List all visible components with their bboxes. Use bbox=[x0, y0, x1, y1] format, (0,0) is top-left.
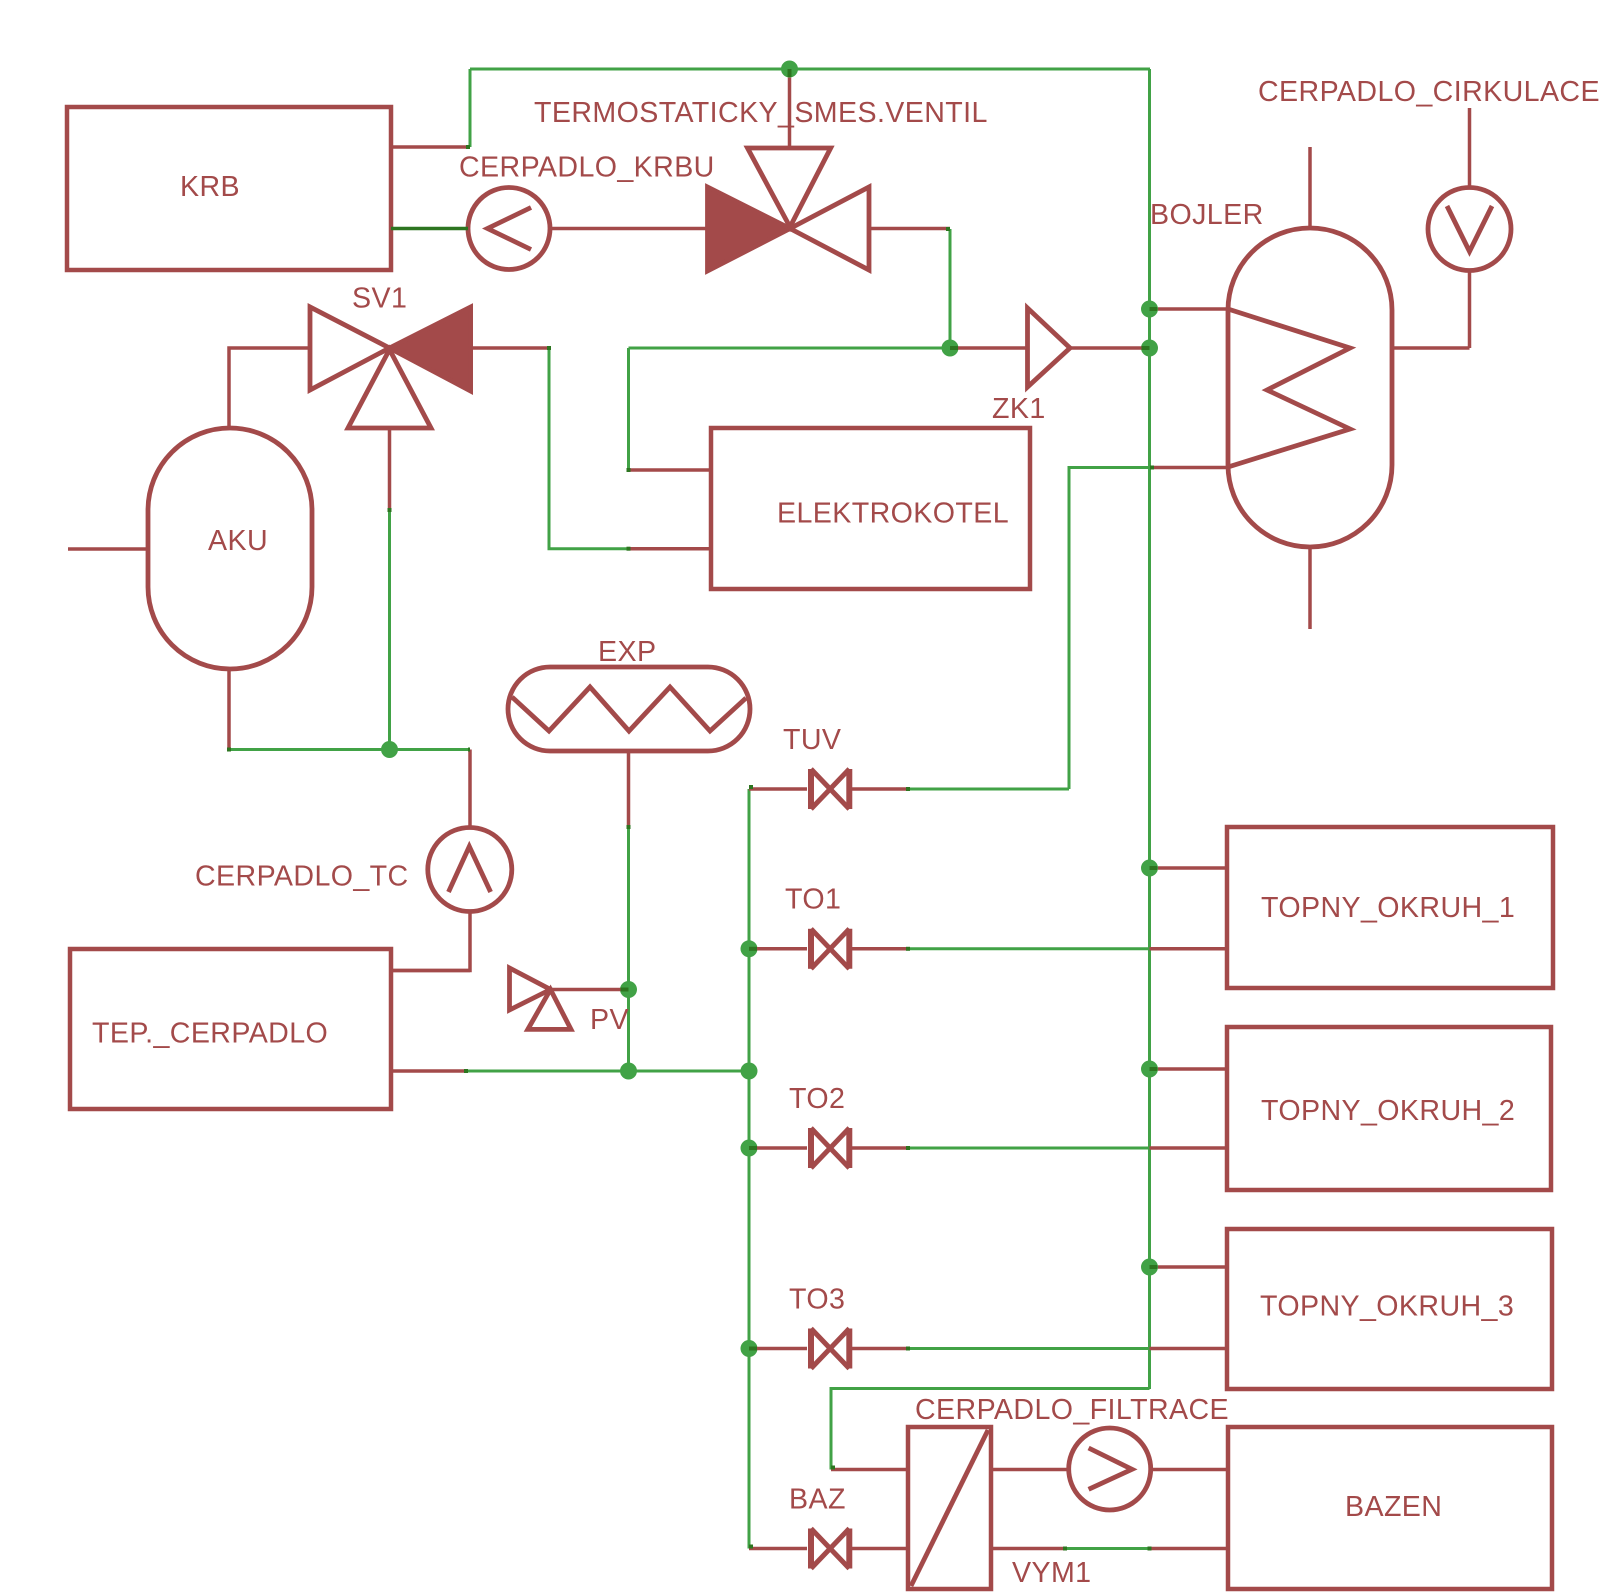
tank AKU left pin bbox=[68, 547, 150, 551]
node bar TOPNY3 feed bbox=[1150, 1265, 1158, 1269]
wire TO2 to box bbox=[908, 1147, 1150, 1150]
node junction on top bus bbox=[781, 61, 798, 78]
heat-exchanger VYM1 box bbox=[908, 1427, 991, 1589]
boiler KRB top pin bbox=[391, 145, 470, 149]
wire-joint nub bojler lower-left bbox=[1150, 466, 1154, 470]
svg-text:TO3: TO3 bbox=[789, 1284, 845, 1316]
valve TERMOSTATICKY top pin bbox=[788, 78, 792, 149]
valve SV1 left triangle bbox=[310, 307, 390, 390]
wire bojler lower-left bbox=[1069, 468, 1152, 790]
pool BAZEN box bbox=[1228, 1427, 1552, 1589]
node TO2 rail junction bbox=[741, 1140, 758, 1157]
valve BAZ bowtie bbox=[811, 1529, 849, 1569]
svg-text:EXP: EXP bbox=[598, 636, 656, 668]
wire-joint nub TC top bbox=[468, 748, 470, 752]
pump CERPADLO_KRBU circle bbox=[468, 188, 550, 270]
valve SV1 left pin bbox=[229, 348, 310, 428]
pump CERPADLO_FILTRACE chevron bbox=[1089, 1448, 1132, 1489]
circuit TOPNY_OKRUH_3 box bbox=[1227, 1229, 1552, 1389]
node PV junction bbox=[620, 981, 637, 998]
wire SV1 bottom down bbox=[388, 510, 391, 750]
wire-joint nub SV1 right bbox=[547, 346, 551, 350]
node bar top bus bbox=[788, 69, 792, 77]
tank BOJLER bottom pin bbox=[1308, 547, 1312, 629]
tank BOJLER top pin bbox=[1308, 147, 1312, 228]
tank BOJLER upper-left pin bbox=[1158, 307, 1228, 311]
circuit TOPNY3 lower pin bbox=[1150, 1347, 1228, 1351]
wire-joint nub VYM1 lower right bbox=[1063, 1547, 1067, 1551]
valve TUV bowtie bbox=[811, 769, 849, 809]
heat-pump TEP lower pin bbox=[391, 1069, 466, 1073]
wire left rail vertical bbox=[748, 789, 751, 1549]
svg-text:TEP._CERPADLO: TEP._CERPADLO bbox=[92, 1018, 328, 1050]
wire rail to VYM1 bbox=[831, 1389, 1150, 1470]
wire-joint nub SMES right bbox=[946, 227, 950, 231]
node TO1 rail junction bbox=[741, 940, 758, 957]
node bar TO2 rail bbox=[749, 1146, 757, 1150]
pump CERPADLO_CIRKULACE bottom pin bbox=[1468, 271, 1472, 349]
wire-joint nub EXP bottom bbox=[627, 825, 631, 829]
svg-text:TO1: TO1 bbox=[785, 884, 841, 916]
pump CERPADLO_CIRKULACE circle bbox=[1428, 188, 1511, 271]
svg-text:TERMOSTATICKY_SMES.VENTIL: TERMOSTATICKY_SMES.VENTIL bbox=[534, 97, 988, 129]
svg-text:CERPADLO_CIRKULACE: CERPADLO_CIRKULACE bbox=[1258, 76, 1600, 108]
check-valve ZK1 left pin bbox=[958, 346, 1028, 350]
wire TUV right bbox=[908, 788, 1069, 791]
svg-text:AKU: AKU bbox=[208, 525, 268, 557]
relief-valve PV bottom triangle bbox=[528, 990, 571, 1030]
wire TO1 to box bbox=[908, 947, 1150, 950]
relief-valve PV right triangle bbox=[510, 968, 551, 1010]
pump CERPADLO_KRBU chevron bbox=[488, 208, 532, 250]
valve SV1 right triangle filled bbox=[390, 307, 471, 391]
wire SMES out down bbox=[949, 229, 952, 348]
svg-text:TOPNY_OKRUH_3: TOPNY_OKRUH_3 bbox=[1260, 1291, 1514, 1323]
tank BOJLER right pin bbox=[1392, 346, 1470, 350]
wire-joint nub VYM1 left bbox=[831, 1466, 835, 1470]
pump CERPADLO_CIRKULACE top pin bbox=[1468, 108, 1472, 188]
svg-text:ZK1: ZK1 bbox=[992, 393, 1046, 425]
node AKU-SV1 junction bbox=[381, 741, 398, 758]
svg-text:TOPNY_OKRUH_1: TOPNY_OKRUH_1 bbox=[1261, 892, 1515, 924]
wire-joint nub BAZ left bbox=[749, 1545, 753, 1549]
valve TO1 bowtie bbox=[811, 929, 849, 969]
wire-joint nub TUV left bbox=[749, 785, 753, 789]
node bar TOPNY1 feed bbox=[1150, 866, 1158, 870]
valve TERMOSTATICKY right triangle bbox=[790, 187, 869, 270]
pump CERPADLO_FILTRACE right pin bbox=[1151, 1468, 1228, 1472]
pump CERPADLO_FILTRACE left pin bbox=[991, 1468, 1069, 1472]
heat-pump TEP._CERPADLO box bbox=[70, 949, 391, 1109]
svg-text:TOPNY_OKRUH_2: TOPNY_OKRUH_2 bbox=[1261, 1095, 1515, 1127]
node bar SMES-ZK1 bbox=[950, 346, 958, 350]
tank BOJLER capsule bbox=[1228, 228, 1392, 547]
tank AKU bottom pin bbox=[227, 669, 231, 750]
wire KRB bottom pin overlap bbox=[391, 227, 468, 231]
valve TO3 bowtie bbox=[811, 1329, 849, 1369]
svg-text:BAZ: BAZ bbox=[789, 1484, 846, 1516]
valve TUV pins bbox=[749, 787, 908, 791]
node bar TO3 rail bbox=[749, 1347, 757, 1351]
wire elektrokotel top to ZK1 bbox=[629, 347, 951, 350]
node TOPNY2 feed junction bbox=[1141, 1061, 1158, 1078]
pump CERPADLO_TC top pin bbox=[468, 750, 472, 828]
wire-joint nub TEP lower bbox=[464, 1069, 468, 1073]
wire VYM1 to bazen lower bbox=[1065, 1547, 1150, 1550]
wire elektrokotel top vertical bbox=[627, 348, 630, 470]
wire TEP lower to rail bbox=[466, 1070, 749, 1073]
node bar TOPNY2 feed bbox=[1150, 1067, 1158, 1071]
valve TERMOSTATICKY right pin bbox=[869, 227, 950, 231]
boiler ELEKTROKOTEL upper pin bbox=[629, 468, 712, 472]
svg-text:ELEKTROKOTEL: ELEKTROKOTEL bbox=[777, 498, 1009, 530]
wire right rail vertical bbox=[1148, 69, 1151, 1389]
node TEP-rail junction bbox=[741, 1063, 758, 1080]
node bar bojler upper bbox=[1150, 307, 1158, 311]
wire-joint nub TUV right bbox=[906, 787, 910, 791]
wire-joint nub SV1 bottom bbox=[388, 508, 392, 512]
heat-pump TEP upper pin bbox=[391, 969, 470, 973]
wire SV1 right down bbox=[549, 348, 629, 549]
node bar TO1 rail bbox=[749, 947, 757, 951]
pump CERPADLO_TC circle bbox=[428, 828, 512, 912]
vessel EXP capsule bbox=[508, 667, 750, 751]
svg-text:SV1: SV1 bbox=[352, 283, 407, 315]
valve SV1 bottom triangle bbox=[348, 350, 431, 429]
circuit TOPNY2 lower pin bbox=[1150, 1146, 1228, 1150]
circuit TOPNY1 upper pin bbox=[1158, 866, 1227, 870]
check-valve ZK1 triangle bbox=[1028, 308, 1071, 387]
pool BAZEN lower pin bbox=[1150, 1547, 1229, 1551]
wire-joint nub TO3 right bbox=[906, 1347, 910, 1351]
boiler ELEKTROKOTEL lower pin bbox=[629, 547, 712, 551]
vessel EXP zigzag bbox=[512, 687, 746, 731]
wire-joint nub bazen lower bbox=[1148, 1547, 1152, 1551]
wire-joint nub elektrokotel lower bbox=[627, 547, 631, 551]
svg-text:CERPADLO_FILTRACE: CERPADLO_FILTRACE bbox=[915, 1394, 1229, 1426]
wire-joint nub KRB top bbox=[466, 145, 470, 149]
pump CERPADLO_KRBU right pin / valve left pin bbox=[550, 227, 708, 231]
svg-text:CERPADLO_KRBU: CERPADLO_KRBU bbox=[459, 152, 715, 184]
tank BOJLER lower-left pin bbox=[1152, 466, 1228, 470]
relief-valve PV pin bbox=[551, 988, 621, 992]
valve TERMOSTATICKY left triangle filled bbox=[708, 187, 791, 271]
circuit TOPNY_OKRUH_2 box bbox=[1227, 1027, 1551, 1190]
node bar PV bbox=[621, 988, 629, 992]
valve SV1 right pin bbox=[471, 346, 549, 350]
wire EXP down through PV bbox=[627, 827, 630, 1071]
pump CERPADLO_TC bottom pin bbox=[391, 912, 470, 971]
boiler ELEKTROKOTEL box bbox=[711, 428, 1030, 589]
wire TO3 to box bbox=[908, 1347, 1150, 1350]
valve TO3 pins bbox=[757, 1347, 908, 1351]
check-valve ZK1 right pin bbox=[1070, 346, 1142, 350]
wire top bus horizontal bbox=[470, 68, 1150, 71]
valve TO2 bowtie bbox=[811, 1128, 849, 1168]
circuit TOPNY_OKRUH_1 box bbox=[1227, 827, 1553, 988]
node bar ZK1 out bbox=[1142, 346, 1150, 350]
svg-text:CERPADLO_TC: CERPADLO_TC bbox=[195, 861, 409, 893]
tank BOJLER coil zigzag bbox=[1228, 309, 1350, 467]
heat-exchanger VYM1 diagonal bbox=[911, 1430, 988, 1586]
tank AKU capsule bbox=[148, 428, 312, 669]
node TOPNY1 feed junction bbox=[1141, 860, 1158, 877]
wire-joint nub elektrokotel upper bbox=[627, 468, 631, 472]
pump CERPADLO_TC chevron bbox=[449, 847, 491, 893]
node TO3 rail junction bbox=[741, 1340, 758, 1357]
valve SV1 bottom pin bbox=[388, 428, 392, 510]
svg-text:PV: PV bbox=[590, 1004, 629, 1036]
node TOPNY3 feed junction bbox=[1141, 1259, 1158, 1276]
valve TO1 pins bbox=[757, 947, 908, 951]
circuit TOPNY1 lower pin bbox=[1150, 947, 1228, 951]
node ZK1 out junction bbox=[1141, 340, 1158, 357]
wire-joint nub TO2 right bbox=[906, 1146, 910, 1150]
boiler KRB box bbox=[67, 107, 391, 270]
node EXP-TEP junction bbox=[620, 1063, 637, 1080]
pump CERPADLO_FILTRACE circle bbox=[1069, 1428, 1151, 1510]
svg-text:VYM1: VYM1 bbox=[1012, 1557, 1091, 1589]
svg-text:TO2: TO2 bbox=[789, 1083, 845, 1115]
valve BAZ pins bbox=[749, 1547, 908, 1551]
svg-text:BAZEN: BAZEN bbox=[1345, 1491, 1442, 1523]
valve TO2 pins bbox=[757, 1146, 908, 1150]
valve TERMOSTATICKY top triangle bbox=[748, 148, 831, 227]
heat-exchanger VYM1 left top pin bbox=[831, 1468, 908, 1472]
svg-text:TUV: TUV bbox=[783, 724, 841, 756]
svg-text:BOJLER: BOJLER bbox=[1150, 199, 1264, 231]
node bojler upper junction bbox=[1141, 301, 1158, 318]
vessel EXP bottom pin bbox=[627, 751, 631, 827]
heat-exchanger VYM1 right bottom pin bbox=[991, 1547, 1065, 1551]
pump CERPADLO_CIRKULACE chevron bbox=[1447, 206, 1492, 252]
node SMES-ZK1 junction bbox=[942, 340, 959, 357]
wire-joint nub AKU bottom bbox=[227, 748, 231, 752]
wire KRB top to bus bbox=[469, 69, 472, 147]
wire-joint nub TO1 right bbox=[906, 947, 910, 951]
circuit TOPNY2 upper pin bbox=[1158, 1067, 1227, 1071]
svg-text:KRB: KRB bbox=[180, 171, 240, 203]
circuit TOPNY3 upper pin bbox=[1158, 1265, 1227, 1269]
wire AKU bottom to TC bbox=[229, 748, 470, 751]
